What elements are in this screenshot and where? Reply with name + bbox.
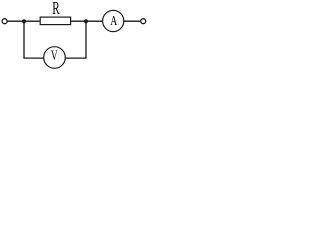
resistor R	[40, 17, 70, 25]
terminal left	[2, 19, 7, 24]
ammeter A	[103, 10, 124, 31]
svg-text:A: A	[110, 14, 118, 29]
svg-text:R: R	[52, 0, 59, 18]
svg-text:V: V	[51, 48, 58, 64]
junction right node	[84, 19, 88, 23]
terminal right	[141, 19, 146, 24]
voltmeter V	[44, 47, 66, 69]
wire top-right	[124, 20, 141, 22]
wire bottom-left	[23, 57, 44, 59]
wire right vertical	[85, 21, 87, 58]
wire left vertical	[23, 21, 25, 58]
wire top-middle	[71, 20, 103, 22]
wire bottom-right	[65, 57, 87, 59]
wire top-left	[7, 20, 40, 22]
junction left node	[22, 19, 26, 23]
